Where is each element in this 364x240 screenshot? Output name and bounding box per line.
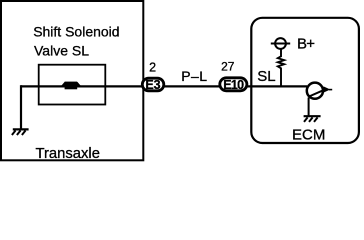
svg-text:ECM: ECM (292, 126, 325, 143)
svg-text:27: 27 (221, 60, 235, 74)
svg-text:E3: E3 (145, 78, 160, 92)
svg-text:Shift Solenoid: Shift Solenoid (33, 23, 119, 39)
svg-text:2: 2 (149, 61, 156, 75)
svg-text:SL: SL (257, 68, 275, 85)
svg-text:P–L: P–L (181, 68, 207, 84)
svg-text:E10: E10 (223, 78, 244, 92)
svg-text:Transaxle: Transaxle (36, 146, 100, 162)
svg-text:B+: B+ (297, 36, 315, 53)
svg-text:Valve SL: Valve SL (34, 43, 89, 59)
